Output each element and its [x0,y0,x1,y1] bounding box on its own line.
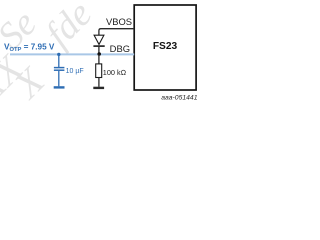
wire capacitor to ground (blue) [58,71,60,86]
ground (capacitor, blue) [54,86,65,88]
svg-text:FS23: FS23 [153,41,178,52]
junction dot capacitor branch (blue) [57,53,60,56]
svg-text:aaa-051441: aaa-051441 [161,94,198,101]
net VOTP wire (blue) [10,53,134,55]
resistor R1 [96,64,102,78]
wire VBOS pin to diode anode [99,29,134,36]
wire diode cathode to node VOTP [98,47,100,55]
svg-text:10 µF: 10 µF [66,68,84,75]
IC FS23 [134,5,196,90]
junction dot diode/resistor branch [97,52,101,56]
svg-text:DBG: DBG [110,43,130,54]
capacitor C1 plates (blue) [54,68,65,71]
wire resistor to ground [98,78,100,87]
ground (resistor) [93,87,104,89]
diode D1 [93,35,104,46]
wire node to capacitor C1 (blue) [58,54,60,67]
wire node to resistor R1 [98,55,100,65]
svg-text:VBOS: VBOS [106,16,132,27]
svg-text:100 kΩ: 100 kΩ [103,68,126,77]
